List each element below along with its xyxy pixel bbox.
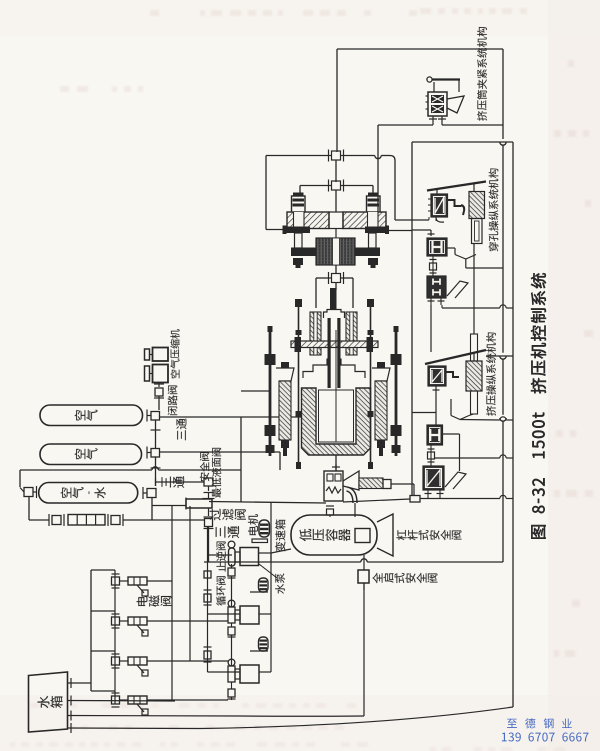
circulation valve 2 <box>204 590 212 605</box>
bus right x513 <box>512 142 514 707</box>
inline valve v2 <box>329 180 344 192</box>
wire y142 branch <box>412 141 513 143</box>
label 三通 pump side <box>216 526 240 538</box>
label 变速箱 <box>275 519 285 551</box>
flange bar left <box>283 226 311 235</box>
wire valve1 row <box>266 156 395 161</box>
watermark phone 139 6707 6667 <box>502 733 589 742</box>
side column cap right <box>372 362 390 456</box>
valve 全启式安全阀 <box>358 570 369 590</box>
label 闭路阀 <box>168 385 178 415</box>
wire top frame y49 <box>337 48 503 50</box>
lever weight end <box>383 480 391 489</box>
cylinder 挤压 rod down <box>471 391 478 414</box>
wire y356 branch <box>486 355 513 357</box>
cylinder 穿孔 rod down <box>472 219 483 244</box>
wire y500 right run <box>343 495 513 502</box>
compressor 空气压缩机 <box>145 348 169 383</box>
label 全启式安全阀 <box>373 573 438 583</box>
label 空气 tank1 <box>75 410 98 421</box>
press ram stem <box>330 288 337 310</box>
wire y391 to rod <box>241 390 269 392</box>
cylinder 挤压 rod up <box>471 334 478 361</box>
filter chain boxes <box>68 515 105 526</box>
cylinder 挤压 hatched <box>466 361 482 391</box>
fitting VB-VC <box>428 445 435 466</box>
label 电机 <box>248 514 258 535</box>
press central tube <box>328 318 341 388</box>
wire circ to pump rows <box>208 555 241 672</box>
wire valve3 to press <box>335 283 337 291</box>
elbow pipe <box>347 489 355 503</box>
wire filter left link <box>152 505 186 507</box>
side cylinder right <box>367 193 381 214</box>
press gland block <box>324 310 345 319</box>
wire compressor to tank1 <box>158 400 160 410</box>
vessel funnel <box>377 514 393 556</box>
wire y447 tank2 to rod <box>160 451 281 453</box>
wire vessel bottom drop <box>363 555 365 570</box>
inline valve v3 <box>329 272 344 284</box>
piston rod right <box>369 233 377 248</box>
tank1 空气 <box>40 405 143 426</box>
wire x337 drop to valve <box>336 49 338 152</box>
label 杠杆式安全阀 <box>396 530 461 540</box>
wire weight to valve sq <box>391 484 414 495</box>
pilot flag of clamp valve <box>447 96 464 113</box>
wire filter row to chain <box>123 519 204 521</box>
solenoid valve 1 <box>112 574 149 596</box>
solenoid riser x115 <box>114 570 116 704</box>
thin rod right <box>367 299 374 469</box>
wire 全启式 down <box>363 583 365 716</box>
wire V2 right brace <box>447 244 476 269</box>
linkage V1 <box>448 200 465 215</box>
brace 挤压 <box>451 399 474 420</box>
fitting filter row right <box>108 514 123 526</box>
wire y417 tank1 to press <box>160 416 302 418</box>
wire long y470 <box>20 467 241 470</box>
watermark 至德钢业 <box>507 718 572 728</box>
valve block V3 穿孔 <box>427 276 446 298</box>
pump group 2 <box>228 578 268 624</box>
tank2 空气 <box>40 444 142 465</box>
vessel window <box>355 529 370 543</box>
gland column left <box>310 312 321 355</box>
water tank 水箱 <box>29 672 68 732</box>
crossbar hatched <box>291 341 378 348</box>
container beam hatched <box>287 212 386 229</box>
wire clamp valve right branch <box>442 124 503 126</box>
check valve below pump2 <box>228 623 236 637</box>
piston rod left <box>295 233 303 248</box>
label 穿孔操纵系统机构 <box>489 168 499 251</box>
valve block 挤压筒夹紧 <box>426 92 448 116</box>
wire container to valve3 <box>335 265 337 274</box>
side bar left <box>291 248 316 257</box>
wire pump outputs right <box>259 549 291 672</box>
label 电磁阀 <box>137 595 172 606</box>
wire tank3 left drop <box>19 470 21 487</box>
wire y308 branch <box>442 305 513 308</box>
tank stub 4 long sweep <box>68 707 514 733</box>
rod channel left through beam <box>294 212 305 229</box>
fitting below elbow <box>326 506 334 517</box>
check valve below pump3 <box>228 682 236 699</box>
main cylinder U <box>302 330 371 455</box>
caption 图8-32 1500t 挤压机控制系统 <box>531 273 546 539</box>
wire rod line x474 <box>473 255 475 335</box>
wire y562 bus <box>204 559 503 562</box>
nut left <box>293 258 303 268</box>
wire elbow drop <box>354 503 356 517</box>
fitting V2-V3 <box>430 256 437 276</box>
pointer 水泵 <box>259 564 277 578</box>
wire beam center drop <box>335 190 337 238</box>
check valve below pump1 <box>228 564 236 578</box>
label 三通 lower <box>162 476 185 488</box>
wire x395 drop <box>394 161 396 221</box>
wire clamp valve left branch y125 <box>378 124 433 126</box>
solenoid valve 4 <box>112 693 149 715</box>
rod channel right through beam <box>368 212 379 229</box>
wire sol3 out <box>147 660 228 662</box>
wire pump column <box>231 576 233 700</box>
linkage VA <box>446 372 459 377</box>
wire tank1-tank2 <box>151 420 161 448</box>
wire valve1-valve2 <box>335 160 337 182</box>
wire y420 branch <box>460 417 513 420</box>
solenoid valve 2 <box>112 614 149 636</box>
valve 杠杆式安全阀 body <box>324 464 343 501</box>
valve block VC 挤压 <box>423 466 444 490</box>
wire tank3 down to y520 <box>151 498 153 521</box>
label 过滤阀 <box>210 509 246 521</box>
label 水泵 <box>275 573 285 593</box>
fitting 最低液面阀 <box>204 493 214 499</box>
circulation valve 3 <box>204 647 212 662</box>
wire left frame x266 <box>266 156 287 230</box>
wire sol1 out <box>147 580 172 582</box>
side cylinder left <box>292 193 306 214</box>
tee fitting tank2 <box>147 447 160 459</box>
valve block VB 挤压 <box>427 425 443 445</box>
solenoid ladder left bus <box>91 570 115 691</box>
tank stub 2 <box>68 696 176 706</box>
wire VA to VB <box>433 386 440 425</box>
wire x271 riser <box>270 502 272 562</box>
U mount tab left <box>295 337 302 352</box>
tee fitting tank3 left <box>20 486 37 498</box>
valve block V1 穿孔 <box>428 194 448 217</box>
solenoid valve 3 <box>112 654 149 676</box>
wire sol4 out <box>147 699 228 701</box>
wire valve2 row <box>300 186 373 197</box>
wire y501 left run <box>209 502 326 504</box>
wire VB right <box>443 434 460 471</box>
wire y412 branch <box>412 412 436 414</box>
pump group 1 <box>228 541 258 566</box>
thin rod left <box>295 299 302 469</box>
wire chain down to pumps <box>208 527 210 563</box>
tee fitting tank1 空气 <box>147 410 160 422</box>
wire y268 branch <box>466 267 503 269</box>
wire y230 branch <box>412 230 435 236</box>
gland column right <box>346 312 357 355</box>
wire sol2 out <box>147 620 228 622</box>
wire x241 drop <box>240 417 242 502</box>
label 挤压筒夹紧系统机构 <box>477 27 487 121</box>
wire y482 branch <box>156 478 205 486</box>
container block <box>316 238 355 265</box>
wire valve3 row <box>316 278 353 308</box>
lever 挤压 <box>425 350 486 364</box>
filter 过滤阀 body <box>186 498 215 510</box>
label 空气-水 <box>61 487 106 498</box>
label 低压容器 <box>300 529 351 541</box>
wire x378 drop <box>377 125 379 212</box>
valve 安全阀 symbol <box>204 478 213 491</box>
lever weight pipe hatched <box>359 478 383 489</box>
flange bar right <box>365 226 389 235</box>
press shoulder <box>303 359 365 379</box>
stubs below V3 <box>428 298 445 305</box>
small valve right y498 <box>410 496 420 503</box>
inline valve v1 <box>329 150 344 162</box>
circulation valve column <box>204 526 211 672</box>
tee fitting tank3 right <box>143 487 156 499</box>
side column cap left <box>276 362 294 456</box>
label 水箱 <box>38 696 63 708</box>
cylinder 穿孔 hatched <box>469 192 485 219</box>
wire U bottom <box>335 455 337 471</box>
fitting 三通阀 <box>204 508 214 529</box>
tie rod far right <box>391 326 402 456</box>
bus x412 <box>411 142 413 495</box>
horn funnel <box>343 471 359 490</box>
label 空气压缩机 <box>170 329 179 378</box>
bus right x503 <box>500 49 506 562</box>
tank3 空气-水 <box>39 483 138 504</box>
lever 穿孔 <box>427 182 486 195</box>
wire vertical B x190 <box>189 506 191 661</box>
wire tank3 to filter row <box>29 497 49 521</box>
label 挤压操纵系统机构 <box>486 332 496 415</box>
side bar right <box>355 248 380 257</box>
valve block V2 穿孔 <box>427 238 447 256</box>
tie rod far left <box>265 326 276 456</box>
valve block VA 挤压 <box>428 366 446 386</box>
tank stub 3 <box>68 711 365 721</box>
valve 闭路阀 symbol <box>154 383 164 401</box>
label 空气 tank2 <box>75 448 98 459</box>
label 最低液面阀 <box>212 448 221 498</box>
U mount tab right <box>367 337 374 352</box>
vessel 低压容器 <box>291 515 377 555</box>
pilot flag V3 <box>447 281 468 298</box>
wire beam right to bus <box>386 230 412 232</box>
wire y458 branch <box>435 455 514 458</box>
wire y220 V1 left <box>395 217 429 220</box>
wire tank2-tank3 <box>151 457 161 486</box>
motor1 电机 symbol <box>252 520 269 543</box>
stubs below clamp valve <box>429 116 446 125</box>
nut right <box>368 258 378 268</box>
fitting filter row left <box>49 514 64 526</box>
label 循环阀 <box>216 576 225 605</box>
pump group 3 <box>228 637 268 683</box>
pilot flag VC <box>445 472 466 489</box>
wire x280 drop <box>279 452 281 470</box>
label 三通 upper <box>176 418 186 440</box>
wire x431 down to lever2 <box>430 305 432 352</box>
hook below V1 <box>436 217 444 222</box>
lever of clamp valve <box>427 77 460 92</box>
tank stub 1 <box>68 678 92 688</box>
label 止逆阀 <box>216 541 226 571</box>
stubs below VC <box>425 490 444 499</box>
label 安全阀 <box>200 452 209 481</box>
wire vertical A x172 <box>171 506 173 701</box>
